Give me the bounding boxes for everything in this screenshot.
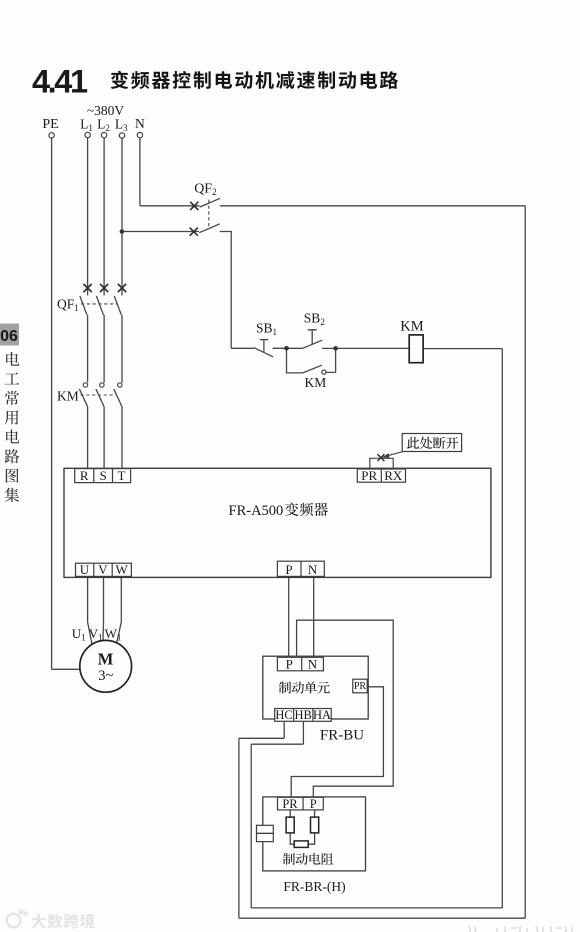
svg-text:06: 06 — [0, 328, 18, 345]
page title 变频器控制电动机减速制动电路 — [111, 71, 398, 89]
FR-BR terminal block lower — [257, 833, 274, 841]
inverter U1 FR-A500 box — [64, 468, 491, 577]
svg-text:FR-BU: FR-BU — [320, 728, 364, 744]
wire HB drop — [302, 721, 304, 744]
QF2 pole 2 blade — [199, 224, 220, 233]
svg-text:U: U — [80, 562, 90, 577]
wire QF2 pole 1 to right rail — [220, 205, 525, 207]
wire L3 KM to T — [121, 406, 123, 468]
wire FR-BR P cell to resistor 2 — [314, 810, 316, 817]
resistor element 1 — [286, 817, 294, 833]
KM coil — [409, 335, 423, 363]
wire KM aux branch up — [326, 348, 336, 372]
wire KM aux branch down — [287, 348, 303, 373]
inner bottom rail — [251, 907, 502, 909]
svg-text:HC: HC — [275, 708, 292, 722]
QF1 linkage dashes — [81, 303, 118, 305]
wire N drop — [139, 138, 141, 206]
wire FR-BU PR to FR-BR PR — [291, 687, 383, 798]
wire L3 QF1 to KM — [121, 315, 123, 383]
FR-BU terminal PR — [353, 679, 367, 693]
inverter terminals U V W — [76, 563, 132, 576]
inverter terminals P N — [277, 561, 324, 576]
braking unit FR-BU box — [263, 656, 368, 719]
PR-RX jumper bridge — [370, 458, 393, 469]
junction dot SB2/coil node — [333, 346, 338, 351]
outer left rail up to HC — [238, 738, 240, 918]
KM main blade pole 3 — [114, 389, 122, 406]
wire HC drop — [283, 721, 285, 738]
wire PE to motor frame — [52, 668, 81, 670]
KM aux contact circle — [322, 370, 326, 374]
inner right rail down — [501, 349, 503, 908]
svg-text:N: N — [308, 657, 318, 672]
outer right rail down — [524, 206, 526, 918]
svg-text:R: R — [80, 468, 89, 483]
svg-text:W: W — [116, 562, 129, 577]
QF1 blade pole 1 — [80, 296, 87, 315]
svg-text:HA: HA — [313, 708, 331, 722]
inverter terminals R S T — [75, 469, 131, 483]
svg-text:RX: RX — [384, 468, 403, 483]
jumper break cross — [377, 454, 384, 461]
label 制动单元 — [279, 681, 330, 693]
inverter terminals PR RX — [357, 469, 405, 482]
QF2 breaker cross pole 2 — [190, 228, 198, 236]
wire SB2 to KM coil — [322, 347, 409, 349]
QF1 breaker cross pole 3 — [118, 284, 126, 292]
QF2 linkage dashes — [208, 200, 210, 229]
QF2 breaker cross pole 1 — [190, 202, 198, 210]
svg-text:PE: PE — [42, 117, 58, 132]
QF1 breaker cross pole 1 — [84, 284, 92, 292]
svg-text:HB: HB — [295, 708, 312, 722]
SB1 actuator — [260, 340, 269, 352]
svg-text:P: P — [310, 797, 317, 811]
wire L1 QF1 to KM — [87, 315, 89, 383]
FR-BU terminals HC HB HA — [275, 709, 332, 722]
wire resistor 1 to series link — [290, 833, 294, 844]
KM main contact circle pole 1 — [83, 383, 87, 387]
page margin book title 电工常用电路图集 — [5, 352, 20, 502]
wire inverter N to FR-BU N — [313, 576, 315, 657]
SB2 blade — [303, 340, 323, 348]
svg-text:M: M — [98, 650, 114, 669]
wire L2 KM to S — [103, 406, 105, 468]
svg-text:FR-BR-(H): FR-BR-(H) — [283, 879, 345, 894]
wire inverter P to FR-BU P — [288, 576, 290, 657]
FR-BR terminal block upper — [257, 825, 274, 833]
svg-text:P: P — [285, 562, 292, 577]
wire KM coil to right inner rail — [423, 348, 502, 350]
label 制动电阻 — [283, 853, 334, 865]
watermark logo — [7, 911, 27, 928]
svg-text:4.41: 4.41 — [32, 64, 88, 100]
KM main blade pole 2 — [96, 389, 104, 406]
KM main contact circle pole 3 — [118, 383, 122, 387]
resistor series link element — [294, 841, 308, 848]
resistor element 2 — [311, 817, 319, 833]
wire L1 drop — [87, 138, 89, 296]
svg-text:N: N — [308, 562, 318, 577]
svg-text:FR-A500: FR-A500 — [229, 503, 284, 519]
svg-text:S: S — [99, 468, 106, 483]
FR-BR terminals PR P — [278, 797, 324, 810]
wire L3 tap to QF2 pole 2 — [122, 231, 199, 233]
KM main blade pole 1 — [79, 389, 87, 406]
wire U to motor — [88, 576, 92, 643]
QF2 pole 1 blade — [200, 198, 221, 207]
callout box 此处断开 — [402, 434, 461, 452]
callout arrow — [388, 451, 404, 455]
junction dot L3/QF2 — [120, 229, 125, 234]
wire control line to SB1 — [231, 347, 254, 349]
wire N to QF2 pole 1 — [140, 205, 200, 207]
wire FR-BR PR cell to resistor 1 — [289, 810, 291, 817]
wire FR-BU P up-over to FR-BR P — [297, 620, 394, 797]
SB2 actuator — [308, 330, 317, 345]
SB1 blade — [254, 348, 273, 357]
wire L3 drop — [121, 138, 123, 295]
svg-text:PR: PR — [354, 681, 367, 692]
wire resistor 2 to series link — [308, 833, 314, 844]
wire HB horizontal — [251, 743, 303, 745]
FR-BU terminals P N — [277, 657, 323, 671]
svg-text:PR: PR — [361, 468, 377, 483]
svg-text:P: P — [286, 657, 293, 672]
motor M 3~ — [80, 640, 132, 692]
wire V to motor — [102, 576, 105, 640]
svg-text:PR: PR — [282, 797, 298, 811]
wire W to motor — [117, 576, 122, 643]
QF1 blade pole 3 — [114, 296, 121, 315]
junction dot SB1/SB2 node — [284, 346, 289, 351]
svg-text:N: N — [135, 116, 145, 131]
KM aux blade — [303, 365, 322, 373]
wire SB1 to SB2 — [273, 347, 303, 349]
wire L1 KM to R — [87, 406, 89, 468]
KM linkage dashes — [81, 394, 116, 396]
wire PE vertical — [51, 138, 53, 669]
braking resistor FR-BR box — [263, 797, 366, 871]
svg-text:3~: 3~ — [98, 668, 113, 684]
svg-text:KM: KM — [400, 319, 423, 335]
inner left rail up to HB — [250, 744, 252, 908]
wire HC horizontal — [239, 737, 284, 739]
page margin tab 06 — [0, 324, 19, 346]
wire L2 drop — [103, 138, 105, 296]
KM main contact circle pole 2 — [100, 383, 104, 387]
wire L2 QF1 to KM — [103, 315, 105, 383]
QF1 breaker cross pole 2 — [100, 284, 108, 292]
svg-text:V: V — [98, 562, 108, 577]
QF1 blade pole 2 — [96, 296, 103, 315]
faint bottom-right print artifacts — [468, 926, 572, 932]
watermark text 大数跨境 — [32, 914, 95, 929]
wire QF2 pole 2 out — [220, 232, 231, 349]
outer bottom rail — [239, 917, 525, 919]
svg-text:T: T — [118, 468, 126, 483]
svg-text:KM: KM — [57, 389, 79, 404]
svg-text:KM: KM — [305, 375, 327, 390]
